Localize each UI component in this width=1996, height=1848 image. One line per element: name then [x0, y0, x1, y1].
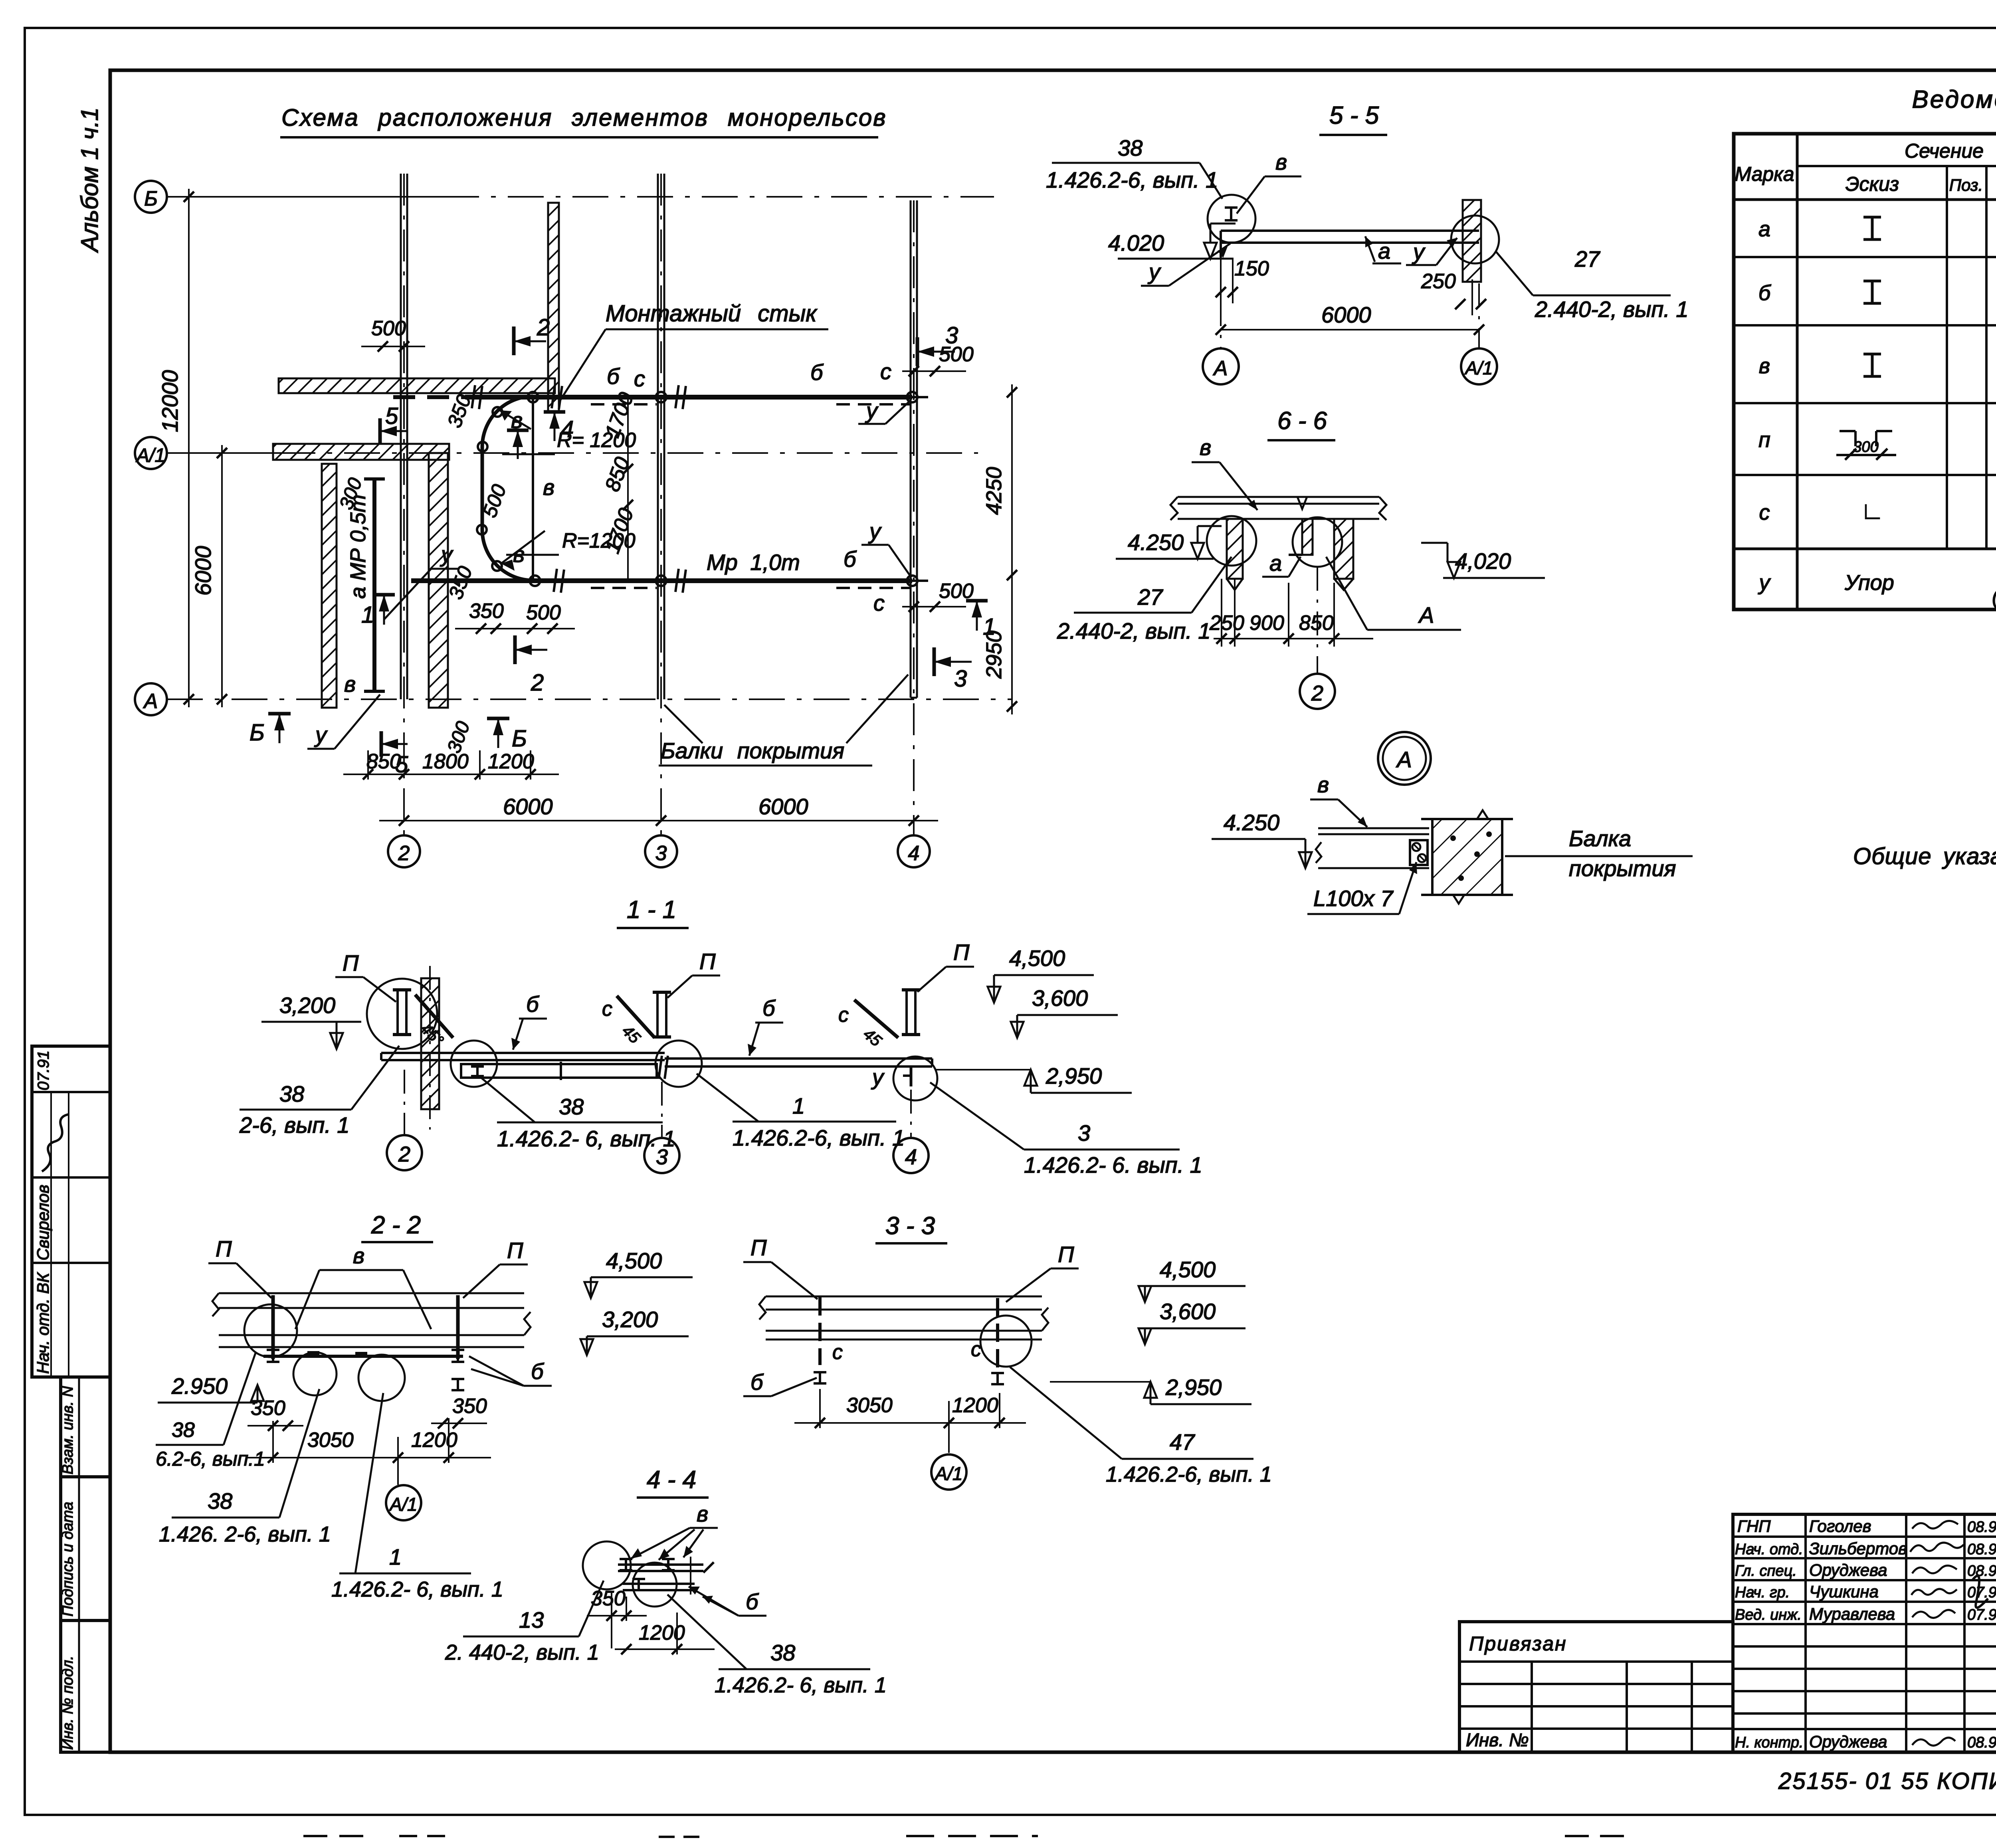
svg-text:Чушкина: Чушкина [1809, 1582, 1879, 1601]
svg-text:А: А [143, 690, 158, 713]
beam [1318, 827, 1429, 829]
svg-text:б: б [531, 1359, 545, 1384]
svg-text:у: у [1758, 571, 1771, 595]
svg-text:1200: 1200 [488, 750, 534, 773]
svg-text:4.250: 4.250 [1224, 810, 1279, 835]
svg-text:П: П [507, 1238, 523, 1263]
svg-text:2: 2 [398, 1142, 410, 1166]
svg-text:2: 2 [1311, 681, 1323, 705]
svg-text:850: 850 [1299, 611, 1334, 635]
svg-text:с: с [832, 1341, 843, 1364]
svg-text:47: 47 [1170, 1429, 1195, 1454]
svg-text:в: в [1275, 149, 1287, 174]
rail cluster [618, 1563, 703, 1566]
hatched wall vertical at col3-area top [548, 203, 559, 412]
G_DETA [1212, 732, 1693, 914]
axis circles [1220, 257, 1222, 348]
svg-text:Нач. отд.: Нач. отд. [1735, 1541, 1803, 1558]
1 right [966, 599, 988, 603]
slab joint funnel at middle [1297, 497, 1307, 509]
svg-text:1.426. 2-6, вып. 1: 1.426. 2-6, вып. 1 [159, 1522, 331, 1546]
svg-text:Сечение: Сечение [1905, 140, 1984, 162]
2 top [512, 326, 516, 355]
svg-text:3: 3 [945, 323, 958, 348]
svg-text:1.426.2- 6, вып. 1: 1.426.2- 6, вып. 1 [331, 1577, 503, 1601]
suspended rail between ribs [1269, 518, 1313, 520]
svg-text:350: 350 [251, 1397, 285, 1420]
svg-text:у: у [871, 1064, 885, 1090]
svg-text:2-6, вып. 1: 2-6, вып. 1 [239, 1112, 350, 1138]
hatched wall vertical left [322, 464, 337, 708]
svg-text:с: с [634, 366, 645, 391]
montage joint marks [472, 385, 686, 593]
svg-text:П: П [750, 1235, 767, 1260]
svg-text:4: 4 [908, 842, 920, 865]
у labels with leaders [307, 398, 911, 749]
svg-text:б: б [844, 546, 857, 572]
svg-text:900: 900 [1249, 611, 1284, 635]
right dim 4250/2950 [1011, 384, 1013, 714]
svg-text:в: в [344, 671, 356, 696]
svg-text:4 - 4: 4 - 4 [647, 1466, 696, 1494]
arc R1200 upper [482, 396, 533, 447]
rail nodes [477, 392, 917, 586]
svg-text:250: 250 [1209, 611, 1244, 635]
column 2 [388, 174, 420, 867]
svg-text:1800: 1800 [422, 750, 469, 773]
verticals [1796, 134, 1799, 609]
svg-text:6000: 6000 [503, 794, 553, 819]
grid axis А/1 [135, 437, 167, 469]
svg-text:П: П [699, 949, 716, 974]
svg-text:б: б [810, 360, 824, 385]
svg-text:1200: 1200 [952, 1394, 998, 1417]
svg-text:38: 38 [208, 1488, 232, 1514]
column 3 [645, 174, 677, 867]
G_BOTTOM [303, 1752, 1996, 1837]
left box [1459, 1622, 1733, 1752]
svg-text:5 - 5: 5 - 5 [1329, 102, 1379, 129]
svg-text:12000: 12000 [157, 370, 182, 432]
svg-text:300: 300 [1853, 439, 1878, 455]
3 top [916, 337, 919, 366]
grid axis А [135, 683, 167, 715]
svg-text:07.91: 07.91 [1967, 1607, 1996, 1623]
svg-text:2: 2 [398, 842, 410, 865]
arc R1200 lower [482, 530, 533, 580]
svg-text:П: П [216, 1236, 232, 1261]
svg-text:3050: 3050 [307, 1429, 354, 1452]
svg-text:у: у [1147, 259, 1161, 284]
svg-text:4.250: 4.250 [1128, 530, 1184, 555]
G_S11 [239, 940, 1202, 1177]
svg-text:1: 1 [792, 1093, 805, 1118]
svg-text:б: б [526, 991, 540, 1017]
svg-text:4,500: 4,500 [606, 1248, 662, 1273]
post at col4 [902, 988, 920, 991]
signatures [1910, 1521, 1996, 1745]
svg-text:6000: 6000 [758, 794, 808, 819]
posts [271, 1295, 275, 1359]
svg-text:Нач. гр.: Нач. гр. [1735, 1584, 1790, 1601]
rail line bottom [263, 1355, 463, 1358]
axis 2 circle [1317, 567, 1318, 674]
column 4 [898, 200, 930, 867]
svg-text:4: 4 [905, 1145, 917, 1169]
svg-text:а: а [1378, 238, 1390, 263]
svg-text:4,500: 4,500 [1009, 946, 1065, 971]
svg-text:Схема расположения элементов: Схема расположения элементов монорельсов [281, 104, 887, 131]
upper beam [381, 1052, 665, 1054]
svg-text:2.950: 2.950 [171, 1373, 228, 1399]
bottom dim chain 6000/6000 [379, 820, 938, 821]
svg-text:4: 4 [561, 416, 574, 442]
svg-text:1: 1 [361, 602, 374, 628]
2 bottom [513, 635, 517, 664]
svg-text:Подпись и дата: Подпись и дата [59, 1502, 76, 1617]
svg-text:в: в [1200, 435, 1211, 460]
svg-text:3,200: 3,200 [279, 993, 335, 1018]
monorail bottom (Мр 1,0т) [411, 578, 912, 583]
svg-text:в: в [1759, 354, 1770, 378]
svg-text:1.426.2- 6, вып. 1: 1.426.2- 6, вып. 1 [497, 1126, 675, 1151]
svg-text:у: у [868, 518, 882, 544]
svg-text:а: а [1758, 217, 1770, 241]
svg-text:п: п [1758, 428, 1770, 452]
svg-text:4,020: 4,020 [1455, 548, 1511, 574]
svg-text:б: б [750, 1369, 764, 1395]
svg-text:1: 1 [389, 1544, 402, 1569]
svg-text:6000: 6000 [190, 546, 216, 596]
hatched wall band at А/1 [273, 444, 449, 460]
svg-text:с: с [1759, 501, 1770, 524]
Б markers bottom [268, 712, 291, 716]
3 bottom [933, 647, 936, 676]
G_TB [1459, 1514, 1996, 1752]
grid axis Б [135, 181, 167, 213]
svg-text:с: с [602, 997, 612, 1021]
dim 6000 [1221, 329, 1479, 330]
roof slab [1178, 496, 1379, 498]
wall concrete [1432, 819, 1502, 895]
svg-text:38: 38 [559, 1094, 584, 1119]
svg-text:Инв. №: Инв. № [1466, 1729, 1529, 1750]
right wall [1463, 200, 1481, 282]
svg-text:Инв. № подл.: Инв. № подл. [59, 1656, 76, 1750]
svg-text:∟: ∟ [1861, 497, 1884, 524]
svg-text:с: с [873, 590, 885, 615]
svg-text:б: б [746, 1589, 759, 1614]
svg-text:П: П [343, 950, 359, 975]
hatched wall vertical mid [429, 453, 448, 708]
G_S33x [743, 1212, 1272, 1490]
posts [818, 1297, 822, 1365]
G_S44 [445, 1466, 887, 1697]
svg-text:3,600: 3,600 [1160, 1299, 1216, 1324]
svg-text:А/1: А/1 [1464, 358, 1493, 378]
svg-text:Привязан: Привязан [1469, 1632, 1567, 1655]
svg-text:Б: Б [512, 726, 527, 752]
right rib hatched [1334, 519, 1353, 579]
svg-text:1200: 1200 [639, 1621, 685, 1644]
svg-text:П: П [1058, 1242, 1074, 1267]
detail circles [1207, 516, 1256, 566]
svg-text:А/1: А/1 [135, 445, 165, 466]
svg-text:1.426.2-6, вып. 1: 1.426.2-6, вып. 1 [733, 1125, 905, 1150]
right beam [665, 1057, 932, 1060]
G_TABLE [1734, 86, 1996, 609]
svg-text:6000: 6000 [1321, 302, 1371, 327]
svg-text:6.2-6, вып.1: 6.2-6, вып.1 [156, 1448, 265, 1470]
svg-text:1200: 1200 [411, 1429, 457, 1452]
circles [583, 1541, 631, 1589]
braces 45deg [415, 995, 453, 1038]
svg-text:2 - 2: 2 - 2 [371, 1211, 421, 1239]
svg-text:38: 38 [172, 1419, 195, 1442]
svg-text:350: 350 [452, 1395, 487, 1418]
svg-text:А: А [1418, 602, 1434, 627]
5 bottom [380, 731, 383, 757]
svg-text:3: 3 [954, 666, 967, 692]
svg-text:Общие указания даны на лист: Общие указания даны на листе 1 [1853, 843, 1996, 869]
svg-text:27: 27 [1574, 246, 1600, 271]
svg-text:3: 3 [1078, 1120, 1090, 1146]
detail circle [1208, 195, 1255, 243]
svg-text:Оруджева: Оруджева [1809, 1732, 1887, 1751]
section markers [249, 315, 996, 778]
svg-text:в: в [697, 1501, 708, 1526]
svg-text:Эскиз: Эскиз [1846, 173, 1899, 195]
svg-text:250: 250 [1421, 270, 1456, 293]
svg-text:б: б [1758, 281, 1771, 305]
G_PLAN [135, 174, 1017, 928]
svg-text:3,200: 3,200 [602, 1307, 658, 1332]
horizontals [1797, 165, 1996, 167]
svg-text:25155- 01 55 КОПИРОВАЛ: И: 25155- 01 55 КОПИРОВАЛ: Ильичева [1778, 1768, 1996, 1794]
svg-text:2,950: 2,950 [1165, 1375, 1222, 1400]
svg-text:с: с [838, 1003, 849, 1027]
svg-text:А/1: А/1 [934, 1463, 962, 1484]
svg-text:5: 5 [385, 403, 398, 429]
rail element labels [344, 359, 891, 696]
svg-text:1.426.2-6, вып. 1: 1.426.2-6, вып. 1 [1046, 167, 1218, 192]
А/1 circle [386, 1485, 421, 1520]
axes circles [404, 1070, 405, 1135]
I mark in circle [1225, 208, 1238, 220]
svg-text:5: 5 [395, 752, 408, 778]
svg-text:у: у [314, 722, 328, 747]
svg-text:Нач. отд. ВК: Нач. отд. ВК [34, 1272, 52, 1374]
svg-text:500: 500 [371, 317, 406, 340]
svg-text:1.426.2-6, вып. 1: 1.426.2-6, вып. 1 [1106, 1462, 1272, 1486]
detail circles [244, 1304, 297, 1357]
vertical rail x=1208 between arcs [481, 447, 484, 530]
А/1 [931, 1454, 966, 1490]
svg-text:2,950: 2,950 [1046, 1063, 1102, 1088]
svg-text:Поз.: Поз. [1949, 176, 1983, 194]
svg-text:Взам. инв. N: Взам. инв. N [59, 1386, 76, 1474]
signature table [1733, 1514, 1996, 1752]
detail A badge [1378, 732, 1431, 785]
svg-text:П: П [953, 940, 970, 965]
svg-text:Ведомость элементов: Ведомость элементов [1912, 86, 1996, 113]
vertical monorail а МР 0,5т [372, 477, 376, 693]
svg-text:Свирелов: Свирелов [34, 1185, 52, 1260]
monorail top (б) [393, 395, 465, 399]
svg-text:Монтажный стык: Монтажный стык [606, 301, 818, 326]
svg-text:07.91: 07.91 [1967, 1584, 1996, 1601]
vertical rail в at montage area [532, 397, 534, 581]
middle beam б [461, 1064, 657, 1078]
G_S66 [1057, 407, 1545, 709]
svg-text:а: а [1269, 550, 1282, 576]
svg-text:с: с [971, 1338, 981, 1361]
svg-text:4.020: 4.020 [1108, 230, 1164, 255]
svg-text:38: 38 [1118, 135, 1143, 160]
svg-text:2.440-2, вып. 1: 2.440-2, вып. 1 [1535, 297, 1689, 322]
beam [1221, 230, 1479, 232]
svg-text:Вед. инж.: Вед. инж. [1735, 1607, 1802, 1623]
svg-text:у: у [1412, 239, 1426, 264]
1 left [373, 593, 395, 597]
svg-text:38: 38 [279, 1081, 304, 1106]
svg-text:350: 350 [469, 600, 504, 623]
left lower stamp boxes [61, 1377, 110, 1752]
svg-text:у: у [440, 542, 453, 567]
svg-text:А/1: А/1 [388, 1494, 417, 1515]
svg-text:у: у [865, 398, 879, 423]
svg-text:38: 38 [770, 1640, 795, 1665]
эскиз column [1863, 217, 1881, 376]
vertical dim 12000 [188, 189, 190, 707]
left upper stamp box (Нач. отд. ВК Свирелов 07.91) [32, 1046, 110, 1377]
svg-text:Гоголев: Гоголев [1809, 1517, 1871, 1535]
svg-text:1.426.2- 6, вып. 1: 1.426.2- 6, вып. 1 [715, 1673, 887, 1697]
svg-text:Балки покрытия: Балки покрытия [661, 738, 844, 763]
svg-text:L100х 7: L100х 7 [1313, 886, 1394, 911]
svg-text:2. 440-2, вып. 1: 2. 440-2, вып. 1 [445, 1640, 599, 1664]
wall at col2 [421, 978, 439, 1109]
svg-text:13: 13 [519, 1607, 544, 1632]
svg-text:1: 1 [983, 614, 996, 640]
detail circles [367, 979, 437, 1049]
svg-text:3050: 3050 [846, 1394, 893, 1417]
slab/beam lines [219, 1292, 524, 1294]
svg-text:08.91: 08.91 [1967, 1563, 1996, 1579]
G_TITLE [280, 104, 887, 137]
svg-text:Н. контр.: Н. контр. [1735, 1734, 1803, 1751]
svg-text:в: в [1317, 772, 1329, 797]
svg-text:А: А [1213, 357, 1228, 380]
svg-text:150: 150 [1234, 257, 1269, 280]
small I sections at rail level [267, 1350, 464, 1390]
post at col3 [653, 991, 671, 994]
svg-text:Балка: Балка [1569, 826, 1631, 851]
svg-text:Б: Б [144, 187, 158, 210]
beam lines [766, 1296, 1042, 1298]
svg-text:в: в [543, 475, 554, 500]
svg-text:07.91: 07.91 [35, 1051, 52, 1090]
svg-text:1.426.2- 6. вып. 1: 1.426.2- 6. вып. 1 [1024, 1152, 1202, 1177]
svg-text:4250: 4250 [982, 467, 1006, 515]
svg-text:Зильбертов: Зильбертов [1809, 1539, 1907, 1558]
svg-text:А: А [1396, 747, 1412, 772]
svg-text:Гл. спец.: Гл. спец. [1735, 1563, 1797, 1579]
vertical dim 6000 [221, 445, 223, 707]
svg-text:1 - 1: 1 - 1 [627, 896, 676, 924]
svg-text:покрытия: покрытия [1569, 856, 1676, 881]
svg-text:б: б [607, 364, 620, 389]
svg-text:Мр 1,0т: Мр 1,0т [707, 550, 800, 575]
svg-text:Упор: Упор [1844, 571, 1894, 595]
svg-text:ГНП: ГНП [1737, 1517, 1771, 1535]
dims 250 900 850 [1214, 638, 1373, 639]
svg-text:4,500: 4,500 [1160, 1257, 1216, 1282]
left rib hatched [1227, 519, 1243, 579]
bottom dim chain 850/1800/1200 [343, 774, 559, 775]
svg-text:27: 27 [1137, 584, 1163, 609]
G_S22 [156, 1211, 693, 1601]
svg-text:Муравлева: Муравлева [1809, 1605, 1895, 1623]
svg-text:Марка: Марка [1735, 163, 1794, 185]
svg-text:08.91: 08.91 [1967, 1734, 1996, 1751]
svg-text:08.91: 08.91 [1967, 1519, 1996, 1535]
svg-text:Альбом 1 ч.1: Альбом 1 ч.1 [76, 107, 103, 253]
svg-text:Б: Б [249, 720, 265, 746]
svg-text:3 - 3: 3 - 3 [885, 1212, 935, 1240]
п row sketch [1836, 431, 1896, 460]
G_S55 [1046, 102, 1689, 384]
svg-text:08.91: 08.91 [1967, 1541, 1996, 1558]
svg-text:500: 500 [526, 601, 561, 624]
dim chain 1700/850/1700 [627, 397, 629, 581]
svg-text:6 - 6: 6 - 6 [1277, 407, 1327, 435]
П posts [393, 990, 920, 1037]
svg-text:3,600: 3,600 [1032, 985, 1088, 1011]
post at col2 [393, 988, 411, 991]
connection angle w/ bolts [1410, 840, 1428, 865]
svg-text:2: 2 [537, 315, 550, 340]
svg-text:(расположение упора ниже ез: (расположение упора ниже ездовой поверхн… [1992, 586, 1996, 608]
svg-text:R=1200: R=1200 [562, 529, 636, 552]
4 markers [544, 410, 565, 414]
svg-text:б: б [762, 995, 776, 1021]
5 top [378, 418, 382, 444]
svg-text:Оруджева: Оруджева [1809, 1561, 1887, 1579]
svg-text:2: 2 [531, 670, 544, 696]
svg-text:с: с [880, 359, 891, 384]
svg-text:3: 3 [655, 842, 667, 865]
hatched wall band upper (row Б/stream) [279, 378, 555, 393]
svg-text:2.440-2, вып. 1: 2.440-2, вып. 1 [1057, 618, 1211, 643]
svg-text:в: в [353, 1243, 364, 1268]
